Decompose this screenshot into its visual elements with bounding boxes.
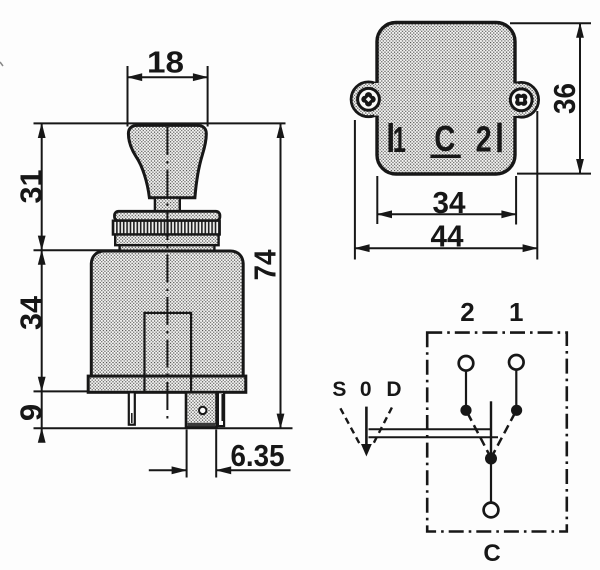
blade hole <box>199 407 206 414</box>
svg-text:34: 34 <box>433 185 467 220</box>
seam patch left <box>374 83 379 116</box>
dim 18 arrow left <box>127 73 143 81</box>
knob stem <box>155 198 180 212</box>
dim 74 arrow up <box>277 123 285 138</box>
position indicator arrow <box>361 444 372 457</box>
dim 36 top extension <box>510 22 591 24</box>
pull rod upper line <box>369 428 491 430</box>
extension line at terminal bottom level <box>34 427 293 429</box>
lever line <box>490 401 492 458</box>
dim 36 arrow down <box>576 159 584 174</box>
pull rod lower line <box>369 436 499 438</box>
right screw center <box>519 98 523 102</box>
dim 6.35 left line <box>149 469 187 471</box>
left screw cross <box>365 96 372 103</box>
body bottom flange <box>88 376 246 392</box>
svg-text:2: 2 <box>476 118 492 159</box>
dim 18 left extension <box>127 66 129 127</box>
svg-text:34: 34 <box>14 295 49 330</box>
terminal bar 2 <box>497 123 501 153</box>
left screw center <box>366 97 371 102</box>
contact dot 2 <box>460 405 471 416</box>
right mounting ear <box>504 82 539 117</box>
terminal bar 1 <box>389 123 393 152</box>
arrow down at 250 <box>38 236 46 251</box>
dash-dot border <box>427 333 567 532</box>
dim 36 arrow up <box>576 22 584 37</box>
svg-text:9: 9 <box>14 404 49 421</box>
dim 6.35 arrow right-pointing <box>172 466 188 474</box>
C underline <box>430 155 460 158</box>
svg-text:0: 0 <box>360 378 372 401</box>
svg-text:2: 2 <box>460 297 474 327</box>
nut lower band <box>115 235 218 246</box>
left dimension chain line <box>41 123 43 441</box>
dim 44 right extension <box>536 111 538 260</box>
svg-text:1: 1 <box>393 119 406 160</box>
dim 74 line <box>280 123 282 428</box>
seam patch right <box>513 84 518 117</box>
inner recessed rectangle <box>145 313 192 392</box>
arrow down at 391 <box>38 377 46 392</box>
left mounting ear <box>351 82 386 117</box>
dim 18 line <box>128 76 208 78</box>
pivot dot <box>485 453 497 465</box>
switch body <box>91 251 243 376</box>
svg-text:36: 36 <box>547 83 582 114</box>
dim 34 right extension <box>515 176 517 225</box>
svg-text:44: 44 <box>431 219 465 254</box>
contact dot 1 <box>511 405 522 416</box>
right screw cross <box>516 95 526 105</box>
dim 34 line <box>377 213 516 215</box>
knob <box>128 125 206 197</box>
dim 44 left extension <box>354 120 356 260</box>
terminal circle 1 <box>509 355 524 370</box>
dim 18 arrow right <box>193 73 209 81</box>
dim 44 arrow left <box>354 244 370 252</box>
knurl band <box>113 221 220 235</box>
big terminal blade <box>186 392 217 427</box>
dim 36 line <box>579 23 581 173</box>
left terminal inner mark <box>131 413 133 423</box>
extension line top (knob top level) <box>34 122 286 124</box>
dashed link to dot 2 <box>467 412 491 458</box>
svg-text:6.35: 6.35 <box>231 438 285 473</box>
dim 6.35 arrow left-pointing <box>215 466 231 474</box>
dashed position S <box>340 408 360 445</box>
dim 34 left extension <box>376 176 378 224</box>
position indicator line <box>365 407 368 446</box>
centerline <box>166 127 168 421</box>
right screw <box>510 89 532 111</box>
dim 34 arrow right <box>501 210 517 218</box>
blade bottom hatch <box>188 423 216 427</box>
extension line at nut base level <box>34 249 120 251</box>
right thin terminal <box>218 392 224 426</box>
svg-text:S: S <box>332 378 346 401</box>
left thin terminal <box>129 392 135 424</box>
svg-text:1: 1 <box>509 297 523 327</box>
svg-text:C: C <box>434 118 455 159</box>
nut collar <box>120 245 215 251</box>
arrow up at 428 <box>38 428 46 443</box>
dim 74 arrow down <box>277 414 285 430</box>
right terminal inner mark <box>221 394 223 421</box>
svg-text:D: D <box>386 378 401 401</box>
left screw <box>358 88 380 110</box>
terminal circle 2 <box>459 356 474 371</box>
flange body <box>377 23 515 175</box>
stem from circle 2 <box>465 372 467 407</box>
dim 18 right extension <box>207 66 209 127</box>
edge speck <box>0 62 3 66</box>
dim 6.35 left extension <box>186 430 188 478</box>
extension line at body bottom level <box>34 390 90 392</box>
terminal circle C <box>484 503 499 518</box>
arrow up at 123 <box>38 123 46 138</box>
dim 34 arrow left <box>377 210 393 218</box>
dim 6.35 right line <box>216 469 290 471</box>
svg-text:31: 31 <box>14 170 49 204</box>
dim 44 line <box>355 247 537 249</box>
svg-text:18: 18 <box>147 45 184 80</box>
dashed position D <box>372 408 392 446</box>
arrow up at 250 <box>38 250 46 265</box>
dim 6.35 right extension <box>215 430 217 478</box>
link to C circle <box>490 458 492 502</box>
svg-text:74: 74 <box>248 249 283 281</box>
svg-text:C: C <box>483 540 500 567</box>
nut top plate <box>115 211 220 220</box>
dim 44 arrow right <box>523 244 539 252</box>
stem from circle 1 <box>515 371 517 407</box>
dim 36 bottom extension <box>517 173 591 175</box>
dashed link to dot 1 <box>491 412 516 458</box>
